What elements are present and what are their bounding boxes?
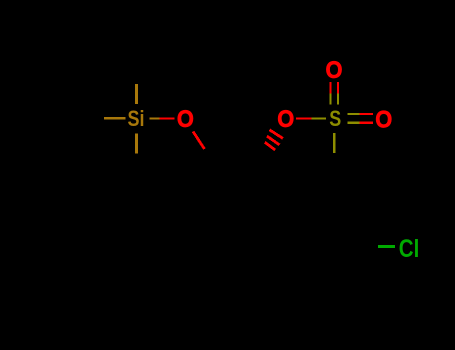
bond S1-C(aryl) stub (down, S colored) [333,133,336,153]
double bond S1=O4 line a (O half, red) [360,113,374,115]
double bond S1=O3 line a (O half, red) [329,82,331,94]
silicon Si1 methyl bond (down) [135,134,138,154]
double bond S1=O4 line a (S half, olive) [348,113,360,115]
bond O1-C1 (O colored half) [193,132,205,150]
double bond S1=O3 line a (S half, olive) [329,94,331,105]
svg-text:O: O [277,106,294,133]
double bond S1=O3 line b (S half, olive) [337,94,339,105]
double bond S1=O4 line b (S half, olive) [348,121,360,123]
stereo hashed wedge C2-O2, hash 3 [265,142,275,150]
silicon Si1 methyl bond (left) [104,117,126,120]
bond O2-S1 (S half) [312,117,327,119]
bond Si1-O1 (O half) [160,117,175,119]
svg-text:O: O [375,106,392,133]
bond C(aryl)-Cl1 (Cl colored half) [378,245,395,248]
bond Si1-O1 (Si half) [150,117,160,119]
double bond S1=O4 line b (O half, red) [360,121,374,123]
stereo hashed wedge C2-O2, hash 1 (nearest O2) [270,130,283,139]
stereo hashed wedge C2-O2, hash 2 [267,136,280,145]
bond O2-S1 (O half) [296,117,312,119]
svg-text:O: O [326,57,343,84]
svg-text:Si: Si [128,106,145,131]
silicon Si1 methyl bond (up) [135,84,138,104]
double bond S1=O3 line b (O half, red) [337,82,339,94]
svg-text:O: O [177,106,194,133]
svg-text:Cl: Cl [399,235,420,263]
svg-text:S: S [329,106,341,131]
